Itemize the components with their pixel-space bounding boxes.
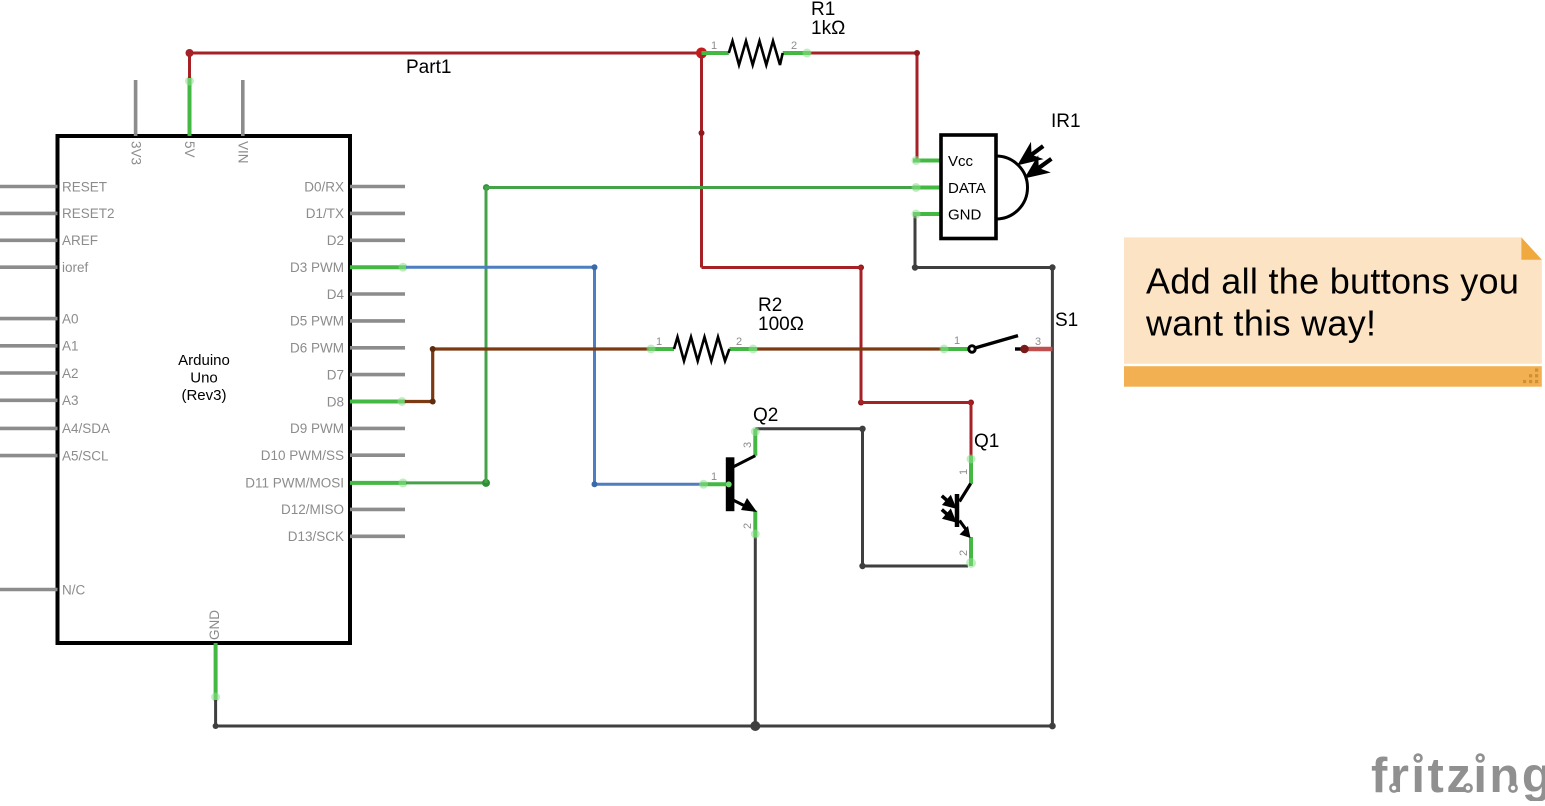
wire brown R2 to S1 (757, 347, 941, 350)
svg-text:Q1: Q1 (974, 431, 999, 452)
Arduino right pin labels (245, 179, 344, 544)
svg-text:ioref: ioref (62, 260, 89, 275)
svg-text:DATA: DATA (948, 180, 986, 197)
wire blue D3 to Q2 base (406, 267, 701, 484)
svg-text:D12/MISO: D12/MISO (281, 502, 344, 517)
svg-text:R2: R2 (758, 295, 782, 316)
svg-text:RESET: RESET (62, 179, 107, 194)
svg-text:Uno: Uno (190, 370, 218, 387)
wire green junction to IR1 DATA (486, 188, 913, 483)
svg-text:D2: D2 (327, 233, 344, 248)
Arduino top pin 5V green (182, 77, 197, 158)
Arduino top pin 3V3 (128, 80, 143, 165)
R2 label (758, 295, 782, 316)
Arduino Uno Part1 body (58, 136, 351, 643)
R1 pin number 1 (711, 40, 717, 52)
wire red S1 pin3 to gnd net (1024, 347, 1052, 352)
svg-text:A4/SDA: A4/SDA (62, 421, 110, 436)
svg-text:3V3: 3V3 (128, 141, 143, 165)
resistor R1 (702, 41, 812, 65)
svg-text:3: 3 (742, 442, 754, 448)
wire gray GND bottom rail (216, 700, 1053, 726)
node gray rail corner right (1049, 723, 1056, 730)
IR1 label (1051, 111, 1081, 132)
svg-text:Arduino: Arduino (178, 352, 230, 369)
svg-text:A0: A0 (62, 311, 79, 326)
svg-text:A5/SCL: A5/SCL (62, 448, 109, 463)
svg-text:fritzing: fritzing (1371, 749, 1545, 801)
svg-text:Add all the buttons you: Add all the buttons you (1146, 261, 1519, 302)
svg-text:VIN: VIN (236, 141, 251, 164)
node gray corner3 (213, 723, 219, 729)
node gray corner (912, 264, 918, 270)
wire green D11 to junction (406, 481, 486, 484)
svg-text:D8: D8 (327, 394, 344, 409)
components (647, 0, 1081, 568)
R1 label (811, 0, 835, 20)
svg-text:Vcc: Vcc (948, 153, 974, 170)
wire red 5V to R1 (190, 53, 702, 78)
R2 value 100Ω (758, 314, 804, 335)
IR receiver IR1 (912, 135, 1052, 239)
pin D11 green stub (350, 478, 408, 487)
R1 value 1kΩ (811, 18, 845, 39)
svg-text:D6 PWM: D6 PWM (290, 341, 344, 356)
wire gray Q2 emitter down (754, 537, 757, 726)
Arduino bottom pin GND green (207, 610, 222, 702)
svg-text:2: 2 (742, 523, 754, 529)
node gray corner2 (1049, 264, 1055, 270)
node gray corner4 (859, 426, 865, 432)
svg-text:D7: D7 (327, 367, 344, 382)
wire brown D8 to R2 (405, 349, 649, 402)
svg-text:A2: A2 (62, 366, 79, 381)
resistor R2 (647, 337, 758, 361)
svg-text:GND: GND (948, 207, 982, 224)
node blue corner bottom (592, 481, 598, 487)
node red bendpoint (699, 130, 705, 136)
node red corner c (858, 400, 864, 406)
svg-text:D10 PWM/SS: D10 PWM/SS (261, 448, 344, 463)
Q2 label (753, 405, 778, 426)
pin D3 green stub (350, 263, 408, 272)
Q1 pin number 1 (958, 469, 970, 475)
svg-text:N/C: N/C (62, 582, 86, 597)
Arduino left pin leads (0, 187, 58, 590)
svg-text:D9 PWM: D9 PWM (290, 421, 344, 436)
phototransistor Q1 (942, 455, 976, 569)
svg-text:IR1: IR1 (1051, 111, 1081, 132)
Q2 pin number 1 (711, 471, 717, 483)
svg-text:2: 2 (736, 336, 742, 348)
junction red at R1 pin1 (696, 48, 707, 59)
node blue corner top (592, 264, 598, 270)
node green corner (483, 184, 490, 191)
wires net (186, 48, 1056, 732)
pin D8 green stub (350, 397, 407, 406)
svg-text:R1: R1 (811, 0, 835, 20)
node red corner a (914, 50, 920, 56)
node gray corner5 (859, 563, 865, 569)
svg-text:D5 PWM: D5 PWM (290, 314, 344, 329)
wire gray IR1 GND down (915, 214, 1052, 726)
Q2 pin number 3 (742, 442, 754, 448)
svg-text:Part1: Part1 (406, 57, 451, 78)
Arduino left pin labels (62, 179, 115, 597)
S1 label (1055, 310, 1078, 331)
wire red to Q1 collector (702, 268, 972, 457)
svg-text:D11 PWM/MOSI: D11 PWM/MOSI (245, 476, 344, 491)
S1 pin number 3 (1035, 336, 1041, 348)
wire red R1 to IR1 Vcc (811, 53, 918, 161)
Q1 pin number 2 (958, 550, 970, 556)
fritzing logo (1371, 749, 1545, 803)
S1 pin number 1 (954, 335, 960, 347)
svg-text:AREF: AREF (62, 233, 98, 248)
switch S1 (940, 336, 1029, 354)
transistor Q2 (699, 427, 760, 539)
node brown corner2 (430, 399, 436, 405)
svg-text:S1: S1 (1055, 310, 1078, 331)
Q1 label (974, 431, 999, 452)
wire gray Q2 collector to Q1 emitter (755, 429, 968, 566)
svg-text:2: 2 (791, 40, 797, 52)
svg-text:D13/SCK: D13/SCK (288, 529, 344, 544)
svg-text:2: 2 (958, 550, 970, 556)
svg-text:D4: D4 (327, 287, 345, 302)
svg-text:3: 3 (1035, 336, 1041, 348)
R1 pin number 2 (791, 40, 797, 52)
node red corner b (858, 265, 864, 271)
Arduino right gray pin leads (350, 187, 405, 537)
svg-text:5V: 5V (182, 141, 197, 158)
svg-text:RESET2: RESET2 (62, 206, 115, 221)
svg-text:1: 1 (656, 336, 662, 348)
svg-text:(Rev3): (Rev3) (181, 387, 226, 404)
R2 pin number 2 (736, 336, 742, 348)
Part1 label (406, 57, 451, 78)
Arduino Uno Part1 (microcontroller) (0, 57, 451, 702)
Arduino top pin VIN (236, 80, 251, 164)
svg-text:1: 1 (711, 471, 717, 483)
junction gray on rail (750, 721, 760, 731)
node red corner d (968, 400, 974, 406)
Q2 pin number 2 (742, 523, 754, 529)
svg-text:D1/TX: D1/TX (306, 206, 344, 221)
svg-text:1: 1 (958, 469, 970, 475)
svg-text:Q2: Q2 (753, 405, 778, 426)
svg-text:A3: A3 (62, 393, 79, 408)
svg-text:GND: GND (207, 610, 222, 640)
R2 pin number 1 (656, 336, 662, 348)
svg-text:want this way!: want this way! (1145, 303, 1376, 344)
svg-text:A1: A1 (62, 339, 79, 354)
svg-text:1: 1 (954, 335, 960, 347)
node brown corner (430, 346, 436, 352)
svg-text:100Ω: 100Ω (758, 314, 804, 335)
svg-text:1kΩ: 1kΩ (811, 18, 845, 39)
node 5V wire end dot (186, 49, 194, 57)
Arduino title text (178, 352, 230, 404)
junction green node (482, 479, 490, 487)
svg-text:D3 PWM: D3 PWM (290, 260, 344, 275)
wire red vertical R1 pin1 down (700, 53, 703, 268)
svg-text:1: 1 (711, 40, 717, 52)
svg-text:D0/RX: D0/RX (304, 179, 344, 194)
note sticky (1124, 237, 1542, 386)
